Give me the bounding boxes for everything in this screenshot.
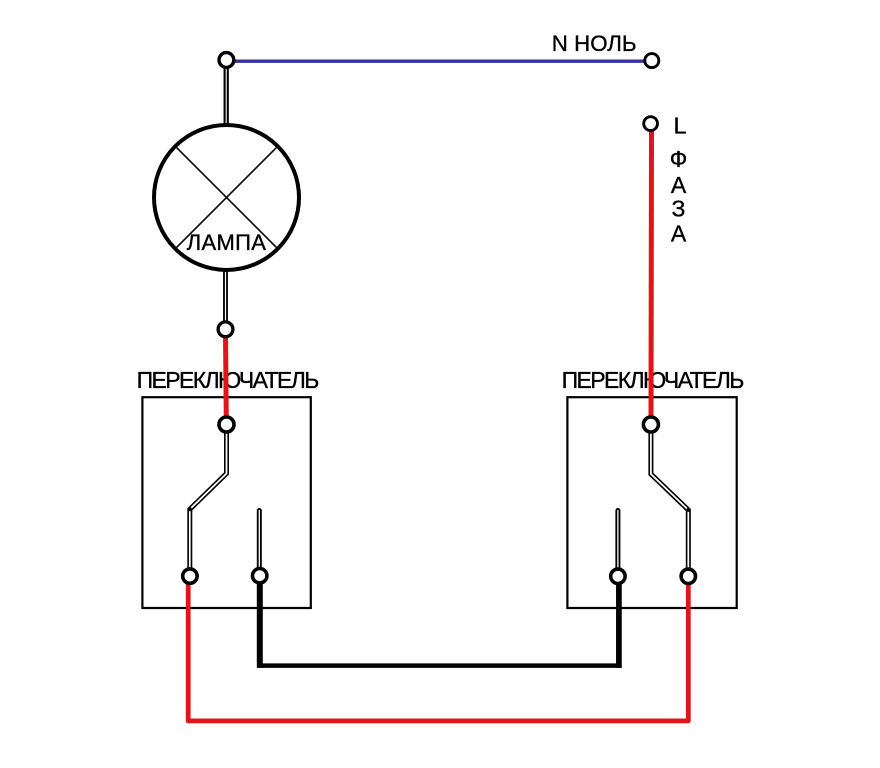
node: SA2 lever elbow dot xyxy=(686,508,690,512)
lamp EL1 cross line 2 xyxy=(175,146,278,249)
svg-text:N НОЛЬ: N НОЛЬ xyxy=(552,31,637,56)
svg-text:А: А xyxy=(671,220,687,246)
label: ФАЗА (vertical letters) xyxy=(670,146,688,246)
wire: black traveler SA1 to SA2 (bottom) xyxy=(257,583,622,668)
svg-text:З: З xyxy=(672,195,686,221)
terminal: lamp top connection xyxy=(219,53,234,68)
svg-text:Ф: Ф xyxy=(670,146,688,172)
switch SA1 contact stub (double line) xyxy=(257,511,262,571)
terminal: SA1 output 2 (bottom right) xyxy=(253,569,267,583)
terminal: L (фаза) xyxy=(644,117,658,131)
terminal: SA2 common (top) xyxy=(643,417,658,432)
switch SA2 contact stub (double line) xyxy=(615,511,620,571)
switch SA1 lever (double line) xyxy=(190,430,227,570)
wire: neutral N (blue) xyxy=(234,60,644,63)
node: SA1 lever elbow dot xyxy=(188,507,192,511)
node: junction terminal below lamp xyxy=(218,322,233,337)
terminal: SA1 output 1 (bottom left) xyxy=(183,569,197,583)
svg-text:А: А xyxy=(671,172,687,198)
wire: red phase from L terminal to SA2 common terminal xyxy=(649,129,655,420)
terminal: SA2 output 2 (bottom right) xyxy=(681,569,695,583)
svg-text:ЛАМПА: ЛАМПА xyxy=(187,230,266,255)
switch SA1 body xyxy=(142,397,310,608)
wire: red traveler SA1 to SA2 (bottom) xyxy=(188,583,688,721)
wire: terminal to lamp top (double line) xyxy=(224,67,229,126)
wire: lamp bottom to junction node (double line) xyxy=(223,269,228,322)
switch SA2 lever (double line) xyxy=(651,430,688,570)
wire: red from junction node to SA1 common terminal xyxy=(223,334,229,420)
svg-text:L: L xyxy=(674,113,687,139)
terminal: N (ноль) xyxy=(645,54,659,68)
lamp EL1 symbol: circle xyxy=(154,125,299,270)
lamp EL1 cross line 1 xyxy=(175,146,278,249)
switch SA2 body xyxy=(567,397,736,608)
terminal: SA2 output 1 (bottom left) xyxy=(611,569,625,583)
terminal: SA1 common (top) xyxy=(219,417,234,432)
